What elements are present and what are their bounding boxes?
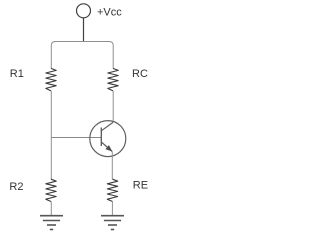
power source +Vcc bbox=[77, 4, 91, 18]
svg-text:R2: R2 bbox=[9, 181, 23, 193]
wire top rail right bbox=[84, 42, 114, 69]
ground right bbox=[101, 216, 124, 230]
wire R2 to ground bbox=[50, 202, 52, 216]
svg-text:R1: R1 bbox=[10, 68, 24, 80]
resistor RE bbox=[107, 179, 117, 201]
wire Vcc stub bbox=[83, 18, 85, 42]
svg-text:RC: RC bbox=[132, 68, 148, 80]
wire emitter rail bbox=[111, 152, 113, 179]
wire collector rail bbox=[112, 91, 114, 122]
svg-text:RE: RE bbox=[133, 179, 148, 191]
ground left bbox=[40, 216, 63, 230]
resistor R2 bbox=[46, 179, 56, 201]
wire base bbox=[51, 137, 101, 139]
resistor R1 bbox=[46, 68, 56, 91]
resistor RC bbox=[108, 68, 118, 91]
transistor Q1 bbox=[90, 121, 126, 157]
wire RE to ground bbox=[111, 202, 113, 216]
wire left rail R1 to R2 bbox=[50, 91, 52, 179]
wire top rail left bbox=[51, 42, 83, 69]
svg-text:+Vcc: +Vcc bbox=[97, 6, 122, 18]
